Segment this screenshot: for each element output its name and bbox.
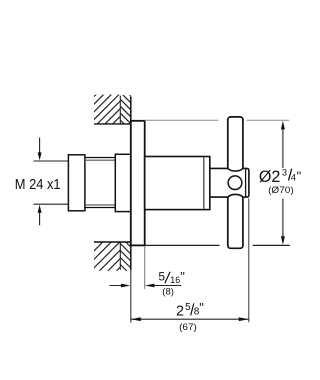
svg-text:(8): (8): [162, 287, 174, 298]
wall bottom: divider line: [119, 242, 121, 270]
svg-text:5: 5: [185, 302, 191, 313]
svg-text:4: 4: [291, 173, 296, 183]
svg-text:2: 2: [176, 303, 184, 319]
screw: [228, 176, 242, 190]
svg-text:(67): (67): [179, 322, 197, 333]
hub: [210, 168, 249, 197]
M24 dimension arrow top: [39, 138, 41, 154]
thread M24 inner lines: [85, 159, 115, 161]
svg-text:": ": [199, 300, 204, 315]
wall top: divider line: [119, 96, 121, 124]
dimension 5/16 left arrow: [110, 285, 127, 287]
extension line: flange top to dim (gray): [145, 119, 219, 121]
dimension 5/16 right arrow: [145, 284, 155, 288]
wall bottom: top border: [94, 241, 132, 243]
svg-text:M 24 x1: M 24 x1: [15, 177, 61, 193]
dimension line D2-3/4 bottom arrow: [282, 199, 284, 238]
valve stem cap: [68, 155, 85, 211]
svg-text:Ø2: Ø2: [259, 168, 281, 186]
valve body: [115, 154, 131, 211]
sleeve end line: [203, 157, 205, 209]
M24 dimension arrow bottom: [39, 212, 41, 226]
svg-text:5: 5: [158, 269, 165, 283]
extension line: wall face down to dimensions: [130, 270, 132, 323]
svg-text:": ": [180, 269, 185, 284]
flange (escutcheon): [131, 121, 145, 246]
extension line: flange right edge down (gray): [144, 247, 146, 289]
svg-text:3: 3: [282, 167, 287, 177]
svg-text:16: 16: [170, 275, 180, 285]
dimension line D2-3/4 top arrow: [282, 129, 284, 169]
svg-text:(Ø70): (Ø70): [268, 185, 294, 196]
wall bottom: face line: [130, 242, 132, 270]
extension line: hub end down: [248, 198, 250, 322]
hub end cap line: [245, 169, 247, 196]
wall section top: hatching: [64, 83, 151, 133]
M24 extension line top: [34, 160, 69, 162]
thread M24 outer lines: [85, 157, 115, 159]
dimension 2-5/8 line: [131, 318, 249, 320]
wall top: bottom border: [94, 123, 132, 125]
wall top: face line: [130, 96, 132, 124]
wall section bottom: hatching: [64, 227, 147, 277]
extension line: flange bottom to dim: [145, 244, 220, 246]
svg-text:": ": [297, 168, 302, 183]
M24 extension line bottom: [34, 203, 69, 205]
sleeve: [145, 157, 210, 210]
handle bar: [228, 117, 243, 248]
